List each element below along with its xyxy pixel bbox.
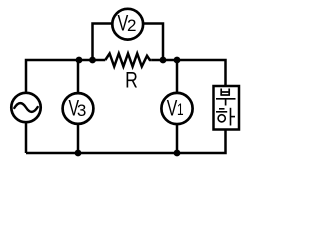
wire: V1 riser	[176, 60, 179, 153]
wire: left rail and top-left segment	[26, 60, 105, 153]
load label glyph 하	[216, 108, 235, 126]
AC source G1 sine wave	[14, 103, 37, 112]
node: junction dot V1 bottom	[174, 150, 181, 157]
svg-text:2: 2	[127, 16, 136, 35]
load label glyph 부	[216, 89, 236, 106]
load box (부하)	[214, 86, 240, 130]
resistor R1 zigzag	[105, 54, 151, 67]
voltmeter V2 circle	[112, 9, 143, 40]
svg-text:3: 3	[77, 101, 86, 120]
label R	[125, 69, 138, 93]
node: junction dot V1 top tap	[174, 57, 181, 64]
node: junction dot V3 bottom	[75, 150, 82, 157]
AC source G1 circle	[11, 93, 40, 122]
node: junction dot V2 right leg	[160, 57, 167, 64]
node: junction dot V2 left leg	[89, 57, 96, 64]
node: junction dot left of resistor (V3 tap)	[76, 57, 83, 64]
voltmeter V3 circle	[63, 93, 94, 124]
voltmeter V1 label	[167, 97, 178, 121]
wire: V2 measuring loop	[93, 24, 164, 61]
voltmeter V1 circle	[161, 93, 192, 124]
svg-text:1: 1	[177, 101, 184, 120]
voltmeter V3 label	[69, 97, 80, 121]
voltmeter V2 label	[118, 12, 129, 36]
svg-text:V: V	[167, 97, 178, 121]
svg-text:R: R	[125, 69, 138, 93]
wire: bottom rail and rise to load	[26, 129, 226, 154]
wire: V3 riser	[77, 60, 80, 153]
wire: top-right segment and drop to load	[151, 60, 225, 87]
